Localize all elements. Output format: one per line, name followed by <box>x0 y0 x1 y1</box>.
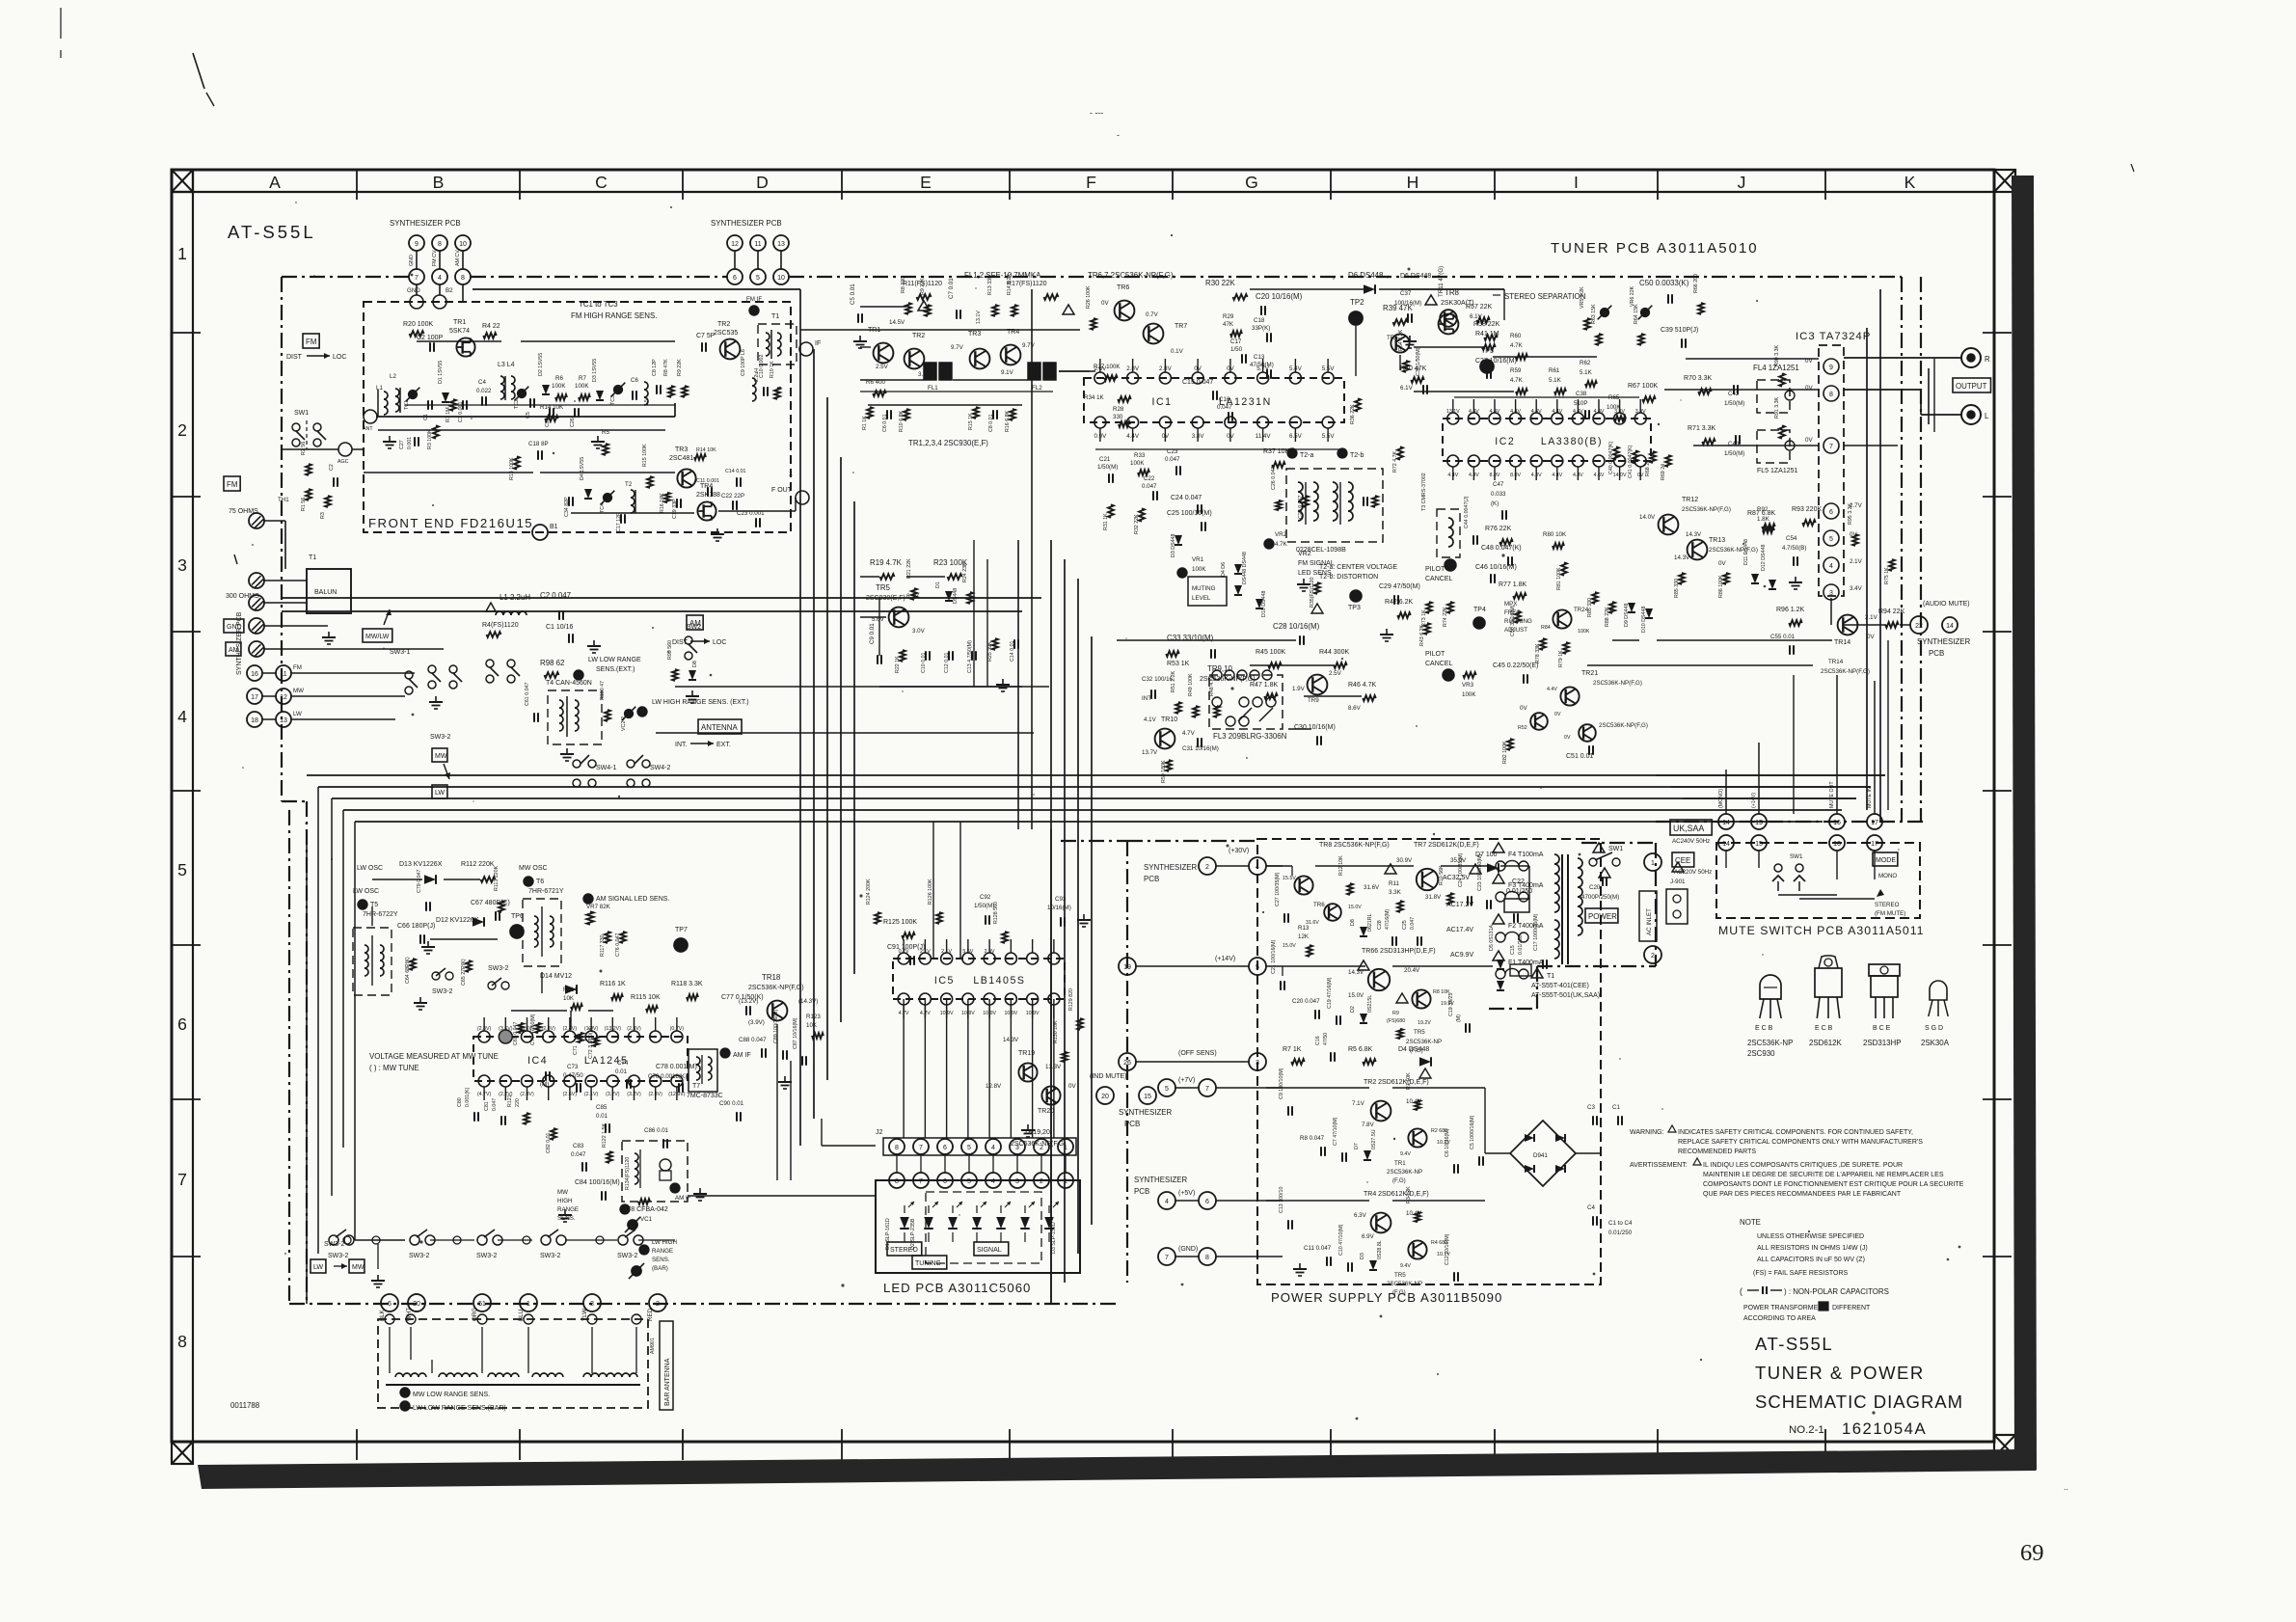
capacitor C4 0.022 <box>476 379 492 406</box>
svg-text:(M): (M) <box>1456 1014 1462 1022</box>
svg-text:7: 7 <box>1165 1255 1169 1261</box>
svg-text:LA1245: LA1245 <box>584 1055 629 1067</box>
svg-text:R88 22K: R88 22K <box>1605 607 1610 627</box>
svg-text:(13.2V): (13.2V) <box>739 998 758 1005</box>
terminal AM <box>249 641 264 657</box>
svg-text:R26 100K: R26 100K <box>1086 285 1092 309</box>
svg-text:T2-a: T2-a <box>1300 452 1314 459</box>
svg-text:R24 23K: R24 23K <box>962 562 968 582</box>
ground c5 <box>853 336 867 348</box>
resistor R77 1.8K <box>1499 581 1527 599</box>
resistor R113 220K <box>494 865 504 912</box>
diode D4 D6 pair <box>1221 552 1248 595</box>
capacitor C27 10/16 <box>1475 358 1517 379</box>
svg-text:R86 100K: R86 100K <box>1718 575 1724 598</box>
svg-text:T2: T2 <box>625 481 633 488</box>
page number 69 <box>2020 1540 2044 1566</box>
svg-text:R57 22K: R57 22K <box>1466 304 1493 311</box>
svg-text:11: 11 <box>754 241 761 248</box>
capacitor C75 nodes <box>540 1071 550 1088</box>
svg-text:5: 5 <box>177 860 187 879</box>
resistor R85 330 <box>1587 592 1598 617</box>
connector pin 11 left <box>276 664 302 681</box>
svg-text:0.033: 0.033 <box>1491 491 1506 498</box>
svg-text:1/50(M): 1/50(M) <box>1097 464 1118 471</box>
coil T2 osc <box>625 481 635 513</box>
svg-text:AT-S55L: AT-S55L <box>228 222 316 242</box>
svg-text:C26 0.047: C26 0.047 <box>1271 467 1277 490</box>
diode D3 DS448 <box>1171 534 1182 557</box>
svg-text:R80 10K: R80 10K <box>1543 531 1567 538</box>
svg-text:C29 47/50(M): C29 47/50(M) <box>1379 583 1420 590</box>
trimpot vr2 dot <box>1264 539 1274 549</box>
svg-text:5: 5 <box>967 1145 971 1151</box>
svg-text:R72 4.7K: R72 4.7K <box>1392 450 1398 473</box>
resistor R115 10K <box>631 994 661 1012</box>
svg-text:7: 7 <box>177 1170 187 1189</box>
svg-text:SYNTHESIZER: SYNTHESIZER <box>1917 637 1971 646</box>
resistor R64 15K <box>1634 304 1644 345</box>
svg-text:D3 SLP-152D: D3 SLP-152D <box>1051 1222 1057 1254</box>
svg-text:R125 100K: R125 100K <box>883 919 917 926</box>
svg-text:R13 330: R13 330 <box>987 276 993 295</box>
label voltage note <box>369 1052 499 1072</box>
svg-text:4: 4 <box>991 1178 995 1185</box>
connector pin 26 off sens <box>1119 1053 1136 1070</box>
led pcb connector row <box>889 1173 1073 1188</box>
svg-text:7: 7 <box>919 1178 923 1185</box>
svg-text:SENS.(EXT.): SENS.(EXT.) <box>596 666 635 673</box>
svg-text:TR5: TR5 <box>876 583 891 592</box>
resistor R23 100K <box>933 558 968 580</box>
svg-text:R7 1K: R7 1K <box>1283 1046 1302 1053</box>
resistor R112 220K <box>461 861 496 882</box>
svg-text:4: 4 <box>177 707 187 726</box>
svg-text:D14 MV12: D14 MV12 <box>540 973 572 980</box>
transistor TR4 ps <box>1354 1191 1429 1232</box>
svg-text:C18: C18 <box>1254 317 1265 324</box>
svg-text:(F,G): (F,G) <box>1410 1047 1423 1054</box>
svg-text:15: 15 <box>1755 820 1763 826</box>
svg-text:SW1: SW1 <box>1790 853 1803 860</box>
svg-text:NO.2-1: NO.2-1 <box>1789 1424 1824 1436</box>
svg-text:69: 69 <box>2020 1540 2044 1566</box>
discriminator coil b <box>1333 482 1353 525</box>
label stereo separation <box>1493 292 1586 301</box>
label CEE boxed <box>1672 852 1712 876</box>
svg-text:2: 2 <box>1205 864 1209 871</box>
svg-text:FL3 209BLRG-3306N: FL3 209BLRG-3306N <box>1213 732 1287 741</box>
svg-text:100K: 100K <box>1462 691 1476 698</box>
svg-text:13.7V: 13.7V <box>1142 749 1158 756</box>
wire tr5 rails <box>860 577 1022 687</box>
svg-text:C93: C93 <box>1055 896 1067 903</box>
capacitor C69 0.047 <box>513 1022 524 1045</box>
resistor R85 330b <box>1674 573 1685 598</box>
label muting level <box>1188 556 1227 606</box>
label int-ext <box>675 741 731 748</box>
resistor R3b <box>320 496 331 519</box>
svg-text:R99 560: R99 560 <box>667 640 673 660</box>
capacitor C48 0.047 <box>1481 545 1522 566</box>
resistor R6 400 <box>866 379 886 396</box>
svg-text:B: B <box>433 173 445 192</box>
svg-text:6: 6 <box>943 1178 947 1185</box>
svg-text:R17(FS)1120: R17(FS)1120 <box>1007 281 1047 287</box>
wire pin10 drop <box>455 250 463 269</box>
transistor TR7 ps <box>1385 842 1479 890</box>
wire bus row4 bundle3 <box>332 797 1856 799</box>
label MODE boxed <box>1873 852 1898 866</box>
svg-text:1.9V: 1.9V <box>1292 686 1306 692</box>
svg-text:2.9V: 2.9V <box>985 949 995 955</box>
label VR2 4.7K <box>1275 531 1288 548</box>
tuner pcb boundary lower-left chain <box>282 801 307 1304</box>
svg-text:C55 0.01: C55 0.01 <box>1770 634 1796 640</box>
svg-text:3.9V: 3.9V <box>1614 409 1625 415</box>
led array D1-D8 <box>900 1202 1059 1242</box>
svg-text:SCHEMATIC DIAGRAM: SCHEMATIC DIAGRAM <box>1755 1392 1963 1412</box>
capacitor C21 1/50 <box>1097 456 1118 483</box>
resistor R88 22K <box>1605 602 1615 627</box>
svg-text:7.8V: 7.8V <box>1362 1122 1375 1128</box>
resistor R67 100K <box>1628 383 1658 402</box>
svg-text:VR7 82K: VR7 82K <box>586 904 611 910</box>
svg-text:D1 SLP-161D: D1 SLP-161D <box>885 1218 891 1250</box>
svg-text:SW3-2: SW3-2 <box>476 1253 498 1259</box>
svg-text:VC2-2: VC2-2 <box>621 716 627 731</box>
note transformer <box>1743 1302 1871 1322</box>
resistor R11 3.3K ps <box>1389 880 1403 912</box>
led pcb box <box>876 1180 1080 1273</box>
svg-text:(+7V): (+7V) <box>1178 1077 1195 1084</box>
transistor TR14 audio mute <box>1834 614 1878 646</box>
svg-text:C27: C27 <box>399 440 405 449</box>
wire fe stub rails <box>405 392 1053 405</box>
svg-text:K: K <box>1904 173 1916 192</box>
resistor R2 56 <box>301 442 311 475</box>
node B1 on front end <box>532 524 558 540</box>
svg-text:(FS)680: (FS)680 <box>1387 1018 1405 1024</box>
svg-text:7HR-6721Y: 7HR-6721Y <box>528 888 564 895</box>
svg-text:1: 1 <box>177 244 187 263</box>
capacitor C8 12P <box>652 359 661 394</box>
connector J2 row <box>876 1129 1076 1155</box>
chain line to mute pcb <box>1656 821 1923 823</box>
svg-text:POWER TRANSFORMER: POWER TRANSFORMER <box>1743 1305 1823 1311</box>
transistor TR13 <box>1674 537 1758 567</box>
svg-text:TR4 2SD612K(D,E,F): TR4 2SD612K(D,E,F) <box>1364 1191 1429 1198</box>
svg-text:C22: C22 <box>1144 475 1155 482</box>
svg-text:10K: 10K <box>806 1022 818 1029</box>
transistor TR14b <box>1821 659 1870 675</box>
resistor R22 1K <box>895 650 905 673</box>
svg-text:TR18: TR18 <box>762 973 781 982</box>
capacitor C76 0.047 <box>615 932 626 957</box>
svg-text:TR6: TR6 <box>1313 902 1325 908</box>
resistor R15 1K <box>968 407 979 430</box>
capacitor C19 33P <box>672 499 681 519</box>
bar antenna sens labels <box>400 1388 506 1412</box>
resistor R48 4.7K <box>1209 674 1220 717</box>
capacitor C24 0.047 <box>1171 495 1202 514</box>
svg-text:2: 2 <box>656 1301 660 1308</box>
svg-text:4.4V: 4.4V <box>1510 409 1521 415</box>
bar antenna connector dots <box>385 1314 641 1324</box>
ground am input <box>587 640 601 653</box>
svg-text:R50 180K: R50 180K <box>1161 760 1167 783</box>
capacitor C5 <box>526 398 534 419</box>
ic4 bottom voltages <box>477 1092 686 1097</box>
svg-text:11: 11 <box>280 671 286 678</box>
svg-text:2SK188: 2SK188 <box>696 492 720 499</box>
resistor R4 22 <box>482 323 500 338</box>
mpx filter FL3 box <box>1209 675 1283 729</box>
capacitor C38 510P <box>1574 391 1589 419</box>
drawing id 0011788 <box>230 1401 260 1410</box>
svg-text:0V: 0V <box>1520 705 1527 712</box>
svg-text:C17 12P: C17 12P <box>616 512 622 532</box>
svg-text:AT-S55T-401(CEE): AT-S55T-401(CEE) <box>1531 983 1589 989</box>
test point TP3 <box>1348 590 1362 611</box>
connector pin 5 tuner <box>750 269 766 284</box>
wire vertical bundle x1056 <box>1018 289 1032 829</box>
trimpot marker t4 <box>574 670 583 680</box>
transistor TR23 <box>1564 722 1648 742</box>
svg-text:C5 1000/16(M): C5 1000/16(M) <box>1470 1115 1475 1149</box>
label +30v <box>1229 848 1249 854</box>
svg-text:AM IF: AM IF <box>733 1052 751 1059</box>
svg-text:C88 0.047: C88 0.047 <box>739 1037 767 1043</box>
svg-text:6: 6 <box>733 275 737 282</box>
svg-text:VC1: VC1 <box>640 1216 653 1223</box>
svg-text:LA3380(B): LA3380(B) <box>1541 436 1603 447</box>
svg-text:MUTE IN: MUTE IN <box>1867 787 1873 808</box>
svg-text:R28: R28 <box>1113 406 1124 413</box>
wire pin9 drop <box>409 251 417 269</box>
capacitor C11 0.047 <box>1304 1245 1332 1266</box>
svg-text:R69 24: R69 24 <box>1661 464 1666 480</box>
svg-text:R45 100K: R45 100K <box>1256 649 1285 656</box>
svg-text:2.1V: 2.1V <box>1865 614 1878 621</box>
svg-text:R51 2.2K: R51 2.2K <box>1171 670 1176 692</box>
svg-text:LW: LW <box>435 790 445 797</box>
svg-text:2SD612K: 2SD612K <box>1809 1039 1843 1047</box>
ground balun <box>322 632 336 644</box>
svg-text:47/16(M): 47/16(M) <box>1385 909 1391 930</box>
svg-text:4.4V: 4.4V <box>1447 473 1458 478</box>
label TR910 <box>1200 664 1256 683</box>
svg-text:R3 100K: R3 100K <box>427 429 433 449</box>
svg-text:C10 47/10(M): C10 47/10(M) <box>1338 1224 1344 1256</box>
svg-text:19.2V: 19.2V <box>1418 1020 1431 1026</box>
svg-text:6: 6 <box>1205 1199 1209 1205</box>
svg-text:510P: 510P <box>1574 400 1587 407</box>
capacitor C26 <box>570 408 579 427</box>
svg-text:C18 8P: C18 8P <box>528 441 549 447</box>
svg-text:TR66 2SD313HP(D,E,F): TR66 2SD313HP(D,E,F) <box>1362 948 1436 955</box>
diode D4 1SV55 <box>580 457 592 499</box>
coil L3 L4 <box>498 362 515 400</box>
resistor R62 5.1K <box>1580 360 1597 387</box>
svg-text:C2 100P: C2 100P <box>417 335 444 341</box>
svg-text:R73 1K: R73 1K <box>1421 609 1427 627</box>
svg-text:R20 100K: R20 100K <box>403 321 433 328</box>
svg-text:R13: R13 <box>1298 925 1310 932</box>
trimmer VC2-2 <box>621 707 635 731</box>
svg-text:TR13: TR13 <box>1709 537 1725 544</box>
svg-text:R1 56: R1 56 <box>301 498 307 511</box>
svg-text:R58 22K: R58 22K <box>1473 321 1500 328</box>
resistor R65 100K <box>1607 394 1626 421</box>
transistor TR7 <box>1144 323 1188 355</box>
svg-text:1: 1 <box>1064 1178 1067 1185</box>
diode D13 KV1226X <box>399 861 443 884</box>
svg-text:6: 6 <box>943 1145 947 1151</box>
capacitor C39 510P <box>1661 327 1698 348</box>
resistor R9 22K <box>677 359 688 397</box>
svg-text:R1 1K: R1 1K <box>862 416 868 430</box>
wire bus row4 bundle2 <box>318 786 1871 788</box>
svg-text:MUTE OUT: MUTE OUT <box>1829 781 1835 808</box>
capacitor C22 22P <box>721 493 744 510</box>
capacitor t2 c <box>1364 496 1378 507</box>
svg-text:20.4V: 20.4V <box>1404 967 1420 974</box>
capacitor C13 100/10 <box>1279 1187 1292 1230</box>
label LW OSC <box>357 865 383 872</box>
resistor R63 15K <box>1591 304 1602 345</box>
svg-text:T4 CAN-4560N: T4 CAN-4560N <box>546 680 592 687</box>
label synthesizer pcb ps bot <box>1134 1176 1188 1196</box>
svg-text:MODE: MODE <box>1876 857 1896 864</box>
wire bus row4 bundle4 <box>343 809 1842 811</box>
capacitor C71 <box>573 1033 583 1055</box>
svg-text:8: 8 <box>461 275 465 282</box>
svg-text:IC3 TA7324P: IC3 TA7324P <box>1796 331 1871 342</box>
transistor TR8 2SK30A <box>1439 288 1483 334</box>
svg-text:5.5V: 5.5V <box>962 949 973 955</box>
svg-text:ADJUST: ADJUST <box>1504 627 1527 634</box>
resistor R87 6.8K <box>1747 510 1776 529</box>
svg-text:AC INLET: AC INLET <box>1646 908 1653 935</box>
label dist-loc <box>286 353 346 361</box>
resistor R75 1K right <box>1884 559 1895 584</box>
wire bus row4 bundle1 <box>307 774 1885 776</box>
svg-text:UK,SAA: UK,SAA <box>1673 824 1704 833</box>
transistor package 2SK30A <box>1921 981 1950 1047</box>
resistor R17(FS)1120 <box>1007 281 1074 314</box>
svg-text:C86 0.01: C86 0.01 <box>644 1127 669 1134</box>
svg-text:47K: 47K <box>1223 321 1234 328</box>
svg-text:2SC536K-NP(F,G): 2SC536K-NP(F,G) <box>1593 680 1642 687</box>
svg-text:100K: 100K <box>1130 460 1145 467</box>
resistor R28 330 <box>1113 406 1130 427</box>
svg-text:CEE: CEE <box>1675 856 1690 865</box>
svg-text:C54: C54 <box>1786 535 1797 542</box>
svg-text:D7: D7 <box>1354 1143 1360 1149</box>
resistor R11(FS)1120 <box>903 281 942 311</box>
svg-text:TR7: TR7 <box>1175 323 1187 330</box>
label power supply pcb <box>1271 1290 1502 1305</box>
svg-text:0S215L: 0S215L <box>1367 995 1373 1013</box>
wire gnd b2 labels <box>407 287 453 294</box>
transistor TR2 if amp <box>876 333 932 378</box>
ground front end input <box>383 436 396 448</box>
capacitor C32 100/16 <box>1142 676 1174 702</box>
svg-text:(+5V): (+5V) <box>1178 1190 1195 1197</box>
led labels <box>885 1218 1057 1254</box>
svg-text:NOTE: NOTE <box>1740 1218 1761 1227</box>
resistor R7 1K ps <box>1283 1046 1305 1065</box>
svg-text:(OFF SENS): (OFF SENS) <box>1178 1050 1217 1057</box>
svg-text:0V: 0V <box>1718 560 1726 567</box>
svg-text:AM901: AM901 <box>650 1338 656 1354</box>
svg-text:2.1V: 2.1V <box>941 949 952 955</box>
svg-text:D: D <box>756 173 769 192</box>
fuse F3 T400mA <box>1493 874 1544 902</box>
label LW OSC T5 <box>353 888 398 918</box>
resistor R125 100K <box>883 919 917 938</box>
svg-text:2: 2 <box>177 420 187 440</box>
svg-text:C67 480P(C): C67 480P(C) <box>471 900 510 906</box>
svg-text:R70 3.3K: R70 3.3K <box>1684 375 1713 382</box>
wire pin13 drop <box>780 251 782 269</box>
svg-text:C15 0.047: C15 0.047 <box>1182 379 1213 386</box>
capacitor C12 0.01 <box>944 651 953 673</box>
ic2 top voltages <box>1446 409 1646 415</box>
connector pin 7-8 gnd <box>1158 1246 1216 1265</box>
svg-text:R49 100K: R49 100K <box>1188 673 1194 696</box>
svg-text:R117 330: R117 330 <box>600 934 606 957</box>
connector pin 8b tuner <box>455 269 471 284</box>
svg-text:C2: C2 <box>329 464 335 471</box>
capacitor C27 100/35 <box>1275 872 1288 922</box>
diode D8 <box>689 661 698 680</box>
capacitor C6 10/16 <box>1445 1128 1458 1173</box>
svg-text:0V: 0V <box>1101 300 1109 307</box>
svg-text:(1.8V): (1.8V) <box>584 1026 599 1032</box>
wire ic2 top rail <box>1454 396 1639 398</box>
svg-text:CANCEL: CANCEL <box>1425 661 1453 667</box>
svg-text:0V: 0V <box>1162 433 1170 440</box>
svg-text:MONO: MONO <box>1878 873 1897 879</box>
svg-text:F OUT: F OUT <box>771 487 793 494</box>
svg-text:(2.9V): (2.9V) <box>627 1026 641 1032</box>
transistor TR6b small <box>1387 334 1410 352</box>
svg-text:C78 0.001(M): C78 0.001(M) <box>656 1064 697 1070</box>
svg-text:15.0V: 15.0V <box>1348 992 1364 999</box>
svg-text:2SC536K-NP: 2SC536K-NP <box>1406 1039 1442 1045</box>
svg-text:0.022: 0.022 <box>476 388 492 394</box>
svg-text:6.3V: 6.3V <box>1354 1212 1367 1219</box>
svg-text:SW3-2: SW3-2 <box>488 965 509 972</box>
wire ic5 to j2 <box>904 999 1054 1138</box>
svg-text:RUNNING: RUNNING <box>1504 618 1532 625</box>
svg-text:6: 6 <box>1829 509 1833 516</box>
transistor TR4 2SK188 front end <box>696 483 720 521</box>
svg-text:8.0V: 8.0V <box>1510 473 1521 478</box>
ic IC3 TA7324P box <box>1819 345 1844 596</box>
connector pin 11 to synthesizer <box>750 235 766 251</box>
label TR1920 <box>1011 1129 1067 1148</box>
ic1 top pin voltages <box>1094 365 1336 372</box>
label AC32.5V <box>1443 875 1470 881</box>
capacitor C14 0.01 tr5 <box>1010 639 1018 662</box>
svg-text:R5: R5 <box>602 429 609 436</box>
switch SW4-1 <box>573 755 617 787</box>
page shadow band bottom <box>198 1449 2037 1489</box>
svg-text:MW: MW <box>435 753 447 760</box>
